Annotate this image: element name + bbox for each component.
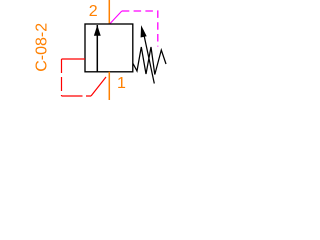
red leader bottom horizontal (dashed) xyxy=(62,95,92,97)
svg-text:2: 2 xyxy=(89,3,98,20)
valve envelope box xyxy=(85,24,133,72)
svg-text:C-08-2: C-08-2 xyxy=(34,23,51,72)
adjustment arrow head xyxy=(141,25,147,37)
flow arrow head xyxy=(94,25,101,36)
svg-text:1: 1 xyxy=(117,75,126,92)
port line 1 xyxy=(108,72,110,100)
red leader horizontal to box xyxy=(62,58,86,60)
red leader vertical (dashed) xyxy=(61,59,63,96)
adjustment arrow stem xyxy=(143,30,154,84)
flow arrow stem xyxy=(96,25,98,72)
pilot line (dashed) xyxy=(122,11,158,47)
pilot line diagonal (solid) xyxy=(110,11,122,24)
red leader diagonal to port 1 xyxy=(91,77,106,96)
port line 2 xyxy=(108,0,110,24)
spring xyxy=(133,47,166,75)
